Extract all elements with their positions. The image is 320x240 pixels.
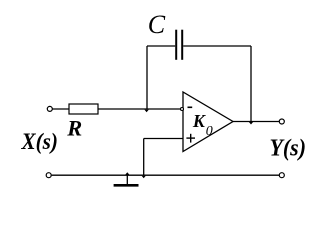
svg-text:R: R — [66, 116, 82, 141]
svg-text:Y(s): Y(s) — [270, 136, 307, 162]
svg-text:K: K — [192, 111, 206, 131]
svg-text:C: C — [148, 10, 166, 39]
svg-text:0: 0 — [206, 124, 213, 139]
svg-text:X(s): X(s) — [21, 129, 58, 154]
